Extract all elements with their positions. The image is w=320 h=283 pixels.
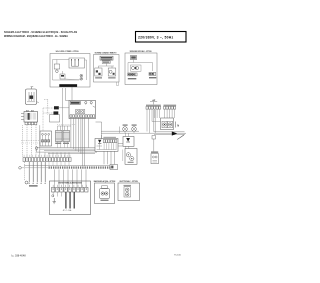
svg-text:SCHEMA COMANDO REMOTO: SCHEMA COMANDO REMOTO	[95, 51, 118, 54]
svg-text:N: N	[177, 124, 179, 127]
svg-text:MORSETTIERA ALIMENTAZIONE: MORSETTIERA ALIMENTAZIONE	[58, 182, 81, 185]
svg-text:AP: AP	[152, 99, 156, 102]
svg-text:220/380V, 3 ~, 50Hz: 220/380V, 3 ~, 50Hz	[138, 36, 174, 40]
svg-text:VERSIONE SPECIALE - OPTION: VERSIONE SPECIALE - OPTION	[130, 50, 152, 53]
svg-text:SCHEMA ELETTRICO - SCHEMA ELEC: SCHEMA ELETTRICO - SCHEMA ELECTRIQUE - S…	[4, 31, 77, 34]
svg-text:WIRING DIAGRAM - ESQUEMA ELECT: WIRING DIAGRAM - ESQUEMA ELECTRICO - EL.…	[4, 35, 68, 38]
svg-text:SOLO VERS. C/TIMER - OPTION: SOLO VERS. C/TIMER - OPTION	[56, 51, 79, 53]
svg-text:4P+T - 16A: 4P+T - 16A	[63, 209, 72, 212]
svg-text:75-100: 75-100	[174, 255, 182, 257]
svg-text:I.c. 038-4048: I.c. 038-4048	[11, 255, 26, 258]
